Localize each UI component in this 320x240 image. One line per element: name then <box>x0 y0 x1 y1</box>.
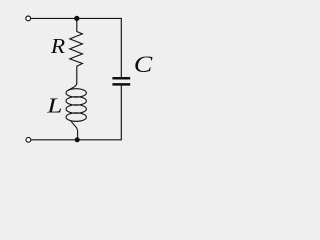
terminal top-left (open circle) <box>26 16 31 21</box>
coil loop 1 <box>66 89 86 98</box>
capacitor C bottom plate <box>112 83 130 86</box>
svg-text:C: C <box>134 51 153 78</box>
wire bottom horizontal <box>31 139 122 141</box>
wire top horizontal <box>31 17 122 19</box>
node bottom junction <box>75 137 80 142</box>
coil loop 4 <box>66 113 86 122</box>
svg-text:R: R <box>50 34 66 58</box>
coil loop 2 <box>66 97 86 106</box>
wire lead out of coil <box>71 121 78 140</box>
inductor L (4 loops) <box>66 83 86 140</box>
svg-text:L: L <box>46 94 62 118</box>
capacitor C top plate <box>112 77 130 80</box>
terminal bottom-left (open circle) <box>26 137 31 142</box>
node top junction <box>74 16 79 21</box>
wire lead into coil <box>68 83 77 91</box>
resistor R (zigzag with leads) <box>70 18 83 83</box>
wire capacitor branch upper <box>120 18 122 77</box>
coil loop 3 <box>66 105 86 114</box>
wire capacitor branch lower <box>120 86 122 141</box>
